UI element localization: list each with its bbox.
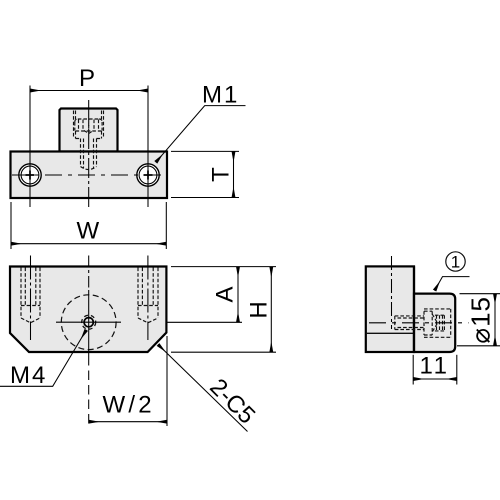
chamfer edge line (side view) xyxy=(366,332,414,334)
11 dimension xyxy=(413,353,457,385)
M1 label and leader xyxy=(156,82,246,163)
M4 thread circle (dashed) xyxy=(82,315,96,329)
T dimension xyxy=(171,151,239,197)
M4 label and leader xyxy=(0,330,86,389)
M4 hole circle xyxy=(84,318,93,327)
plate (side view) xyxy=(366,266,414,352)
P dimension xyxy=(30,65,148,92)
boundary line plate/boss xyxy=(413,266,415,352)
hole right (front view) xyxy=(137,164,159,186)
centerline right hole (top view) xyxy=(147,256,149,341)
top block (boss) of front view xyxy=(60,109,118,152)
boss cylinder (side view) xyxy=(414,294,455,352)
plate outline with 2-C5 chamfers xyxy=(10,267,166,353)
hidden tapped hole left (top view) xyxy=(21,268,40,323)
vertical centerline left hole / P extension xyxy=(29,86,31,208)
base plate of front view xyxy=(11,152,168,199)
svg-text:11: 11 xyxy=(420,353,450,380)
svg-text:W/2: W/2 xyxy=(103,392,155,419)
svg-text:M1: M1 xyxy=(202,82,239,109)
centerline left hole (top view) xyxy=(30,256,32,341)
balloon 1 xyxy=(435,252,470,291)
svg-text:T: T xyxy=(208,167,235,182)
svg-text:A: A xyxy=(212,286,239,302)
horizontal centerline of base xyxy=(12,174,166,176)
horizontal centerline (side view) xyxy=(369,322,469,324)
2-C5 label and leader xyxy=(158,345,260,432)
svg-text:H: H xyxy=(246,301,273,318)
A dimension xyxy=(167,267,277,323)
centerline vertical of top view xyxy=(88,256,90,291)
svg-text:1: 1 xyxy=(451,253,460,272)
W/2 dimension xyxy=(89,336,167,426)
hidden boss circle (top view) xyxy=(61,295,116,350)
svg-text:2-C5: 2-C5 xyxy=(204,374,260,430)
svg-text:M4: M4 xyxy=(10,362,47,389)
H dimension xyxy=(171,267,276,353)
svg-text:P: P xyxy=(79,65,95,92)
vertical centerline (side view) xyxy=(391,256,393,329)
svg-text:W: W xyxy=(76,218,99,245)
hidden screw in boss (front view) xyxy=(74,111,104,170)
W dimension xyxy=(11,202,166,249)
vertical centerline right hole / P extension xyxy=(147,86,149,208)
hidden tapped hole right (top view) xyxy=(138,268,158,323)
phi15 dimension xyxy=(457,294,500,346)
centerline horizontal of top view xyxy=(56,321,121,323)
hidden screw (side view) xyxy=(395,309,451,337)
hole left (front view) xyxy=(19,164,41,186)
vertical centerline of boss xyxy=(88,100,90,207)
svg-text:⌀15: ⌀15 xyxy=(466,296,496,344)
